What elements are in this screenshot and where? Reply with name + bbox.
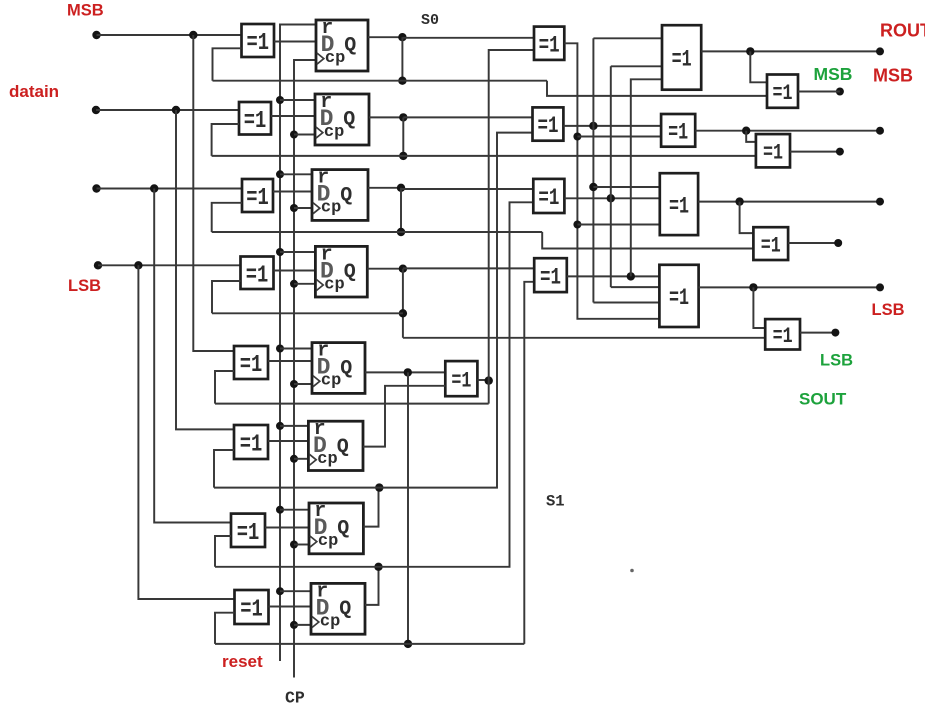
wire U14 tap down to P-gate U18: [750, 51, 767, 82]
wire CP stub to FF6 cp: [294, 458, 308, 460]
wire FF4 Q down past feedback bus: [402, 269, 404, 338]
wire U9 tap to U16: [577, 224, 659, 226]
svg-text:Q: Q: [344, 261, 356, 284]
wire U2 feedback input: [212, 124, 239, 156]
xor gate U18 (=1): [767, 75, 798, 108]
node FF3 Q junction: [397, 184, 405, 192]
wire row4 lower leg to P4: [403, 337, 765, 339]
wire U10 output to U15: [563, 125, 661, 127]
xor gate U7 (=1): [231, 514, 265, 547]
wire U13 lower input from FF6 Q: [363, 386, 445, 447]
wire CP stub to FF2 cp: [294, 134, 315, 136]
junction MSB bus: [189, 31, 197, 39]
xor gate U9 (=1): [534, 27, 564, 60]
wire FF4 Q output: [367, 268, 403, 270]
wire bottom bus (row8 feedback): [215, 643, 524, 645]
wire reset stub to FF4 r: [280, 251, 315, 253]
wire U11 output vertical: [610, 66, 612, 287]
svg-text:Q: Q: [343, 109, 355, 132]
node input bit2: [92, 184, 100, 192]
junction CP to FF2: [290, 131, 298, 139]
junction CP to FF7: [290, 541, 298, 549]
svg-text:=1: =1: [246, 185, 269, 212]
wire U20 output: [788, 242, 838, 244]
wire U15 output: [695, 130, 880, 132]
wire MSB vertical bus down to row5: [193, 35, 234, 351]
wire U11 output to U16: [564, 197, 659, 199]
node output bit3: [876, 198, 884, 206]
wire U1 feedback input: [213, 48, 242, 80]
svg-text:S0: S0: [421, 12, 439, 29]
node SOUT LSB output: [831, 329, 839, 337]
node LSB input: [94, 261, 102, 269]
svg-text:=1: =1: [538, 185, 559, 211]
svg-text:cp: cp: [324, 123, 344, 142]
svg-text:CP: CP: [285, 689, 305, 708]
svg-text:=1: =1: [773, 81, 793, 106]
node FF5 Q junction: [404, 368, 412, 376]
wire row7 feedback bus up to XOR U11: [215, 202, 533, 567]
svg-text:=1: =1: [237, 520, 260, 547]
wire bit2 vertical bus down to row7: [154, 189, 231, 523]
junction U14 output tap: [746, 47, 754, 55]
wire reset stub to FF3 r: [280, 173, 312, 175]
junction U10 output: [589, 122, 597, 130]
node FF4 Q junction: [399, 265, 407, 273]
svg-text:=1: =1: [451, 368, 471, 393]
xor gate U20 (=1): [753, 227, 788, 260]
svg-text:cp: cp: [318, 532, 338, 551]
wire row2 Q bus to XOR U10: [403, 116, 532, 118]
wire U4 output to FF4 D: [274, 270, 316, 272]
junction U9 out to U16: [573, 221, 581, 229]
xor gate U14 (=1, tall): [662, 25, 701, 90]
svg-text:=1: =1: [761, 233, 781, 258]
wire U6 feedback input: [214, 450, 234, 488]
svg-text:=1: =1: [540, 264, 561, 290]
junction U16 output tap: [735, 197, 743, 205]
junction reset to FF7: [276, 506, 284, 514]
junction row6 feedback bus: [375, 483, 383, 491]
node datain input: [92, 106, 100, 114]
junction datain bus: [172, 106, 180, 114]
junction reset to FF2: [276, 96, 284, 104]
svg-text:Q: Q: [340, 184, 352, 207]
flip-flop FF2 (D with r, cp): [315, 91, 369, 145]
svg-text:cp: cp: [324, 275, 344, 294]
wire U11 tap to U17: [611, 286, 662, 288]
node MSB output: [836, 88, 844, 96]
wire reset stub to FF5 r: [280, 348, 312, 350]
svg-text:ROUT: ROUT: [880, 21, 925, 41]
wire input bit2 to XOR U3: [97, 188, 243, 190]
svg-text:=1: =1: [246, 262, 269, 289]
wire U3 output to FF3 D: [273, 191, 312, 193]
svg-text:MSB: MSB: [67, 1, 104, 19]
junction CP to FF8: [290, 621, 298, 629]
svg-text:reset: reset: [222, 652, 263, 671]
svg-text:cp: cp: [321, 199, 341, 218]
wire U6 output to FF6 D: [268, 440, 308, 442]
junction U11 output: [607, 194, 615, 202]
wire CP stub to FF3 cp: [294, 207, 312, 209]
wire reset stub to FF6 r: [280, 425, 308, 427]
node FF1 Q junction: [398, 33, 406, 41]
node output bit2: [876, 127, 884, 135]
flip-flop FF8 (D with r, cp): [311, 580, 365, 634]
flip-flop FF4 (D with r, cp): [315, 243, 367, 297]
wire U16 output: [698, 201, 880, 203]
junction CP to FF6: [290, 455, 298, 463]
junction reset to FF5: [276, 345, 284, 353]
wire U5 feedback input: [215, 371, 234, 404]
wire FF1 Q output: [368, 36, 402, 38]
flip-flop FF1 (D with r, cp): [316, 17, 368, 71]
svg-text:Q: Q: [340, 357, 352, 380]
wire U12 output vertical to U14: [631, 79, 662, 276]
wire FF7 Q up to row6 feedback bus: [363, 488, 378, 527]
xor gate U15 (=1): [661, 114, 695, 147]
flip-flop FF6 (D with r, cp): [308, 418, 363, 470]
xor gate U12 (=1): [534, 258, 567, 292]
svg-text:=1: =1: [539, 32, 560, 58]
wire FF5 Q output to XOR U13: [365, 371, 445, 373]
junction row7 feedback bus: [374, 563, 382, 571]
svg-text:LSB: LSB: [68, 277, 101, 295]
svg-text:cp: cp: [321, 372, 341, 391]
node serial output bit2: [836, 148, 844, 156]
wire reset vertical line: [280, 25, 316, 662]
svg-text:=1: =1: [669, 193, 689, 219]
junction bottom bus: [404, 640, 412, 648]
wire row2 feedback bus to P2: [212, 155, 756, 157]
wire reset stub to FF8 r: [280, 590, 311, 592]
junction reset to FF4: [276, 248, 284, 256]
xor gate U19 (=1): [756, 134, 790, 167]
wire MSB input to XOR U1: [97, 34, 242, 36]
node MSB input: [92, 31, 100, 39]
wire row4 Q bus to XOR U12: [403, 267, 534, 269]
junction CP to FF5: [290, 380, 298, 388]
svg-text:=1: =1: [773, 324, 793, 349]
svg-text:=1: =1: [668, 120, 688, 146]
junction U15 output tap: [742, 127, 750, 135]
xor gate U6 (=1): [234, 425, 268, 459]
svg-text:=1: =1: [244, 108, 267, 135]
junction U9 out to U15: [573, 133, 581, 141]
svg-text:Q: Q: [339, 598, 351, 621]
wire U3 feedback input: [212, 203, 242, 232]
wire FF2 Q output: [369, 116, 403, 118]
svg-text:datain: datain: [9, 82, 59, 101]
node FF2 Q junction: [399, 113, 407, 121]
xor gate U16 (=1, tall): [660, 173, 698, 235]
wire U14 output to ROUT: [701, 50, 880, 52]
wire CP stub to FF4 cp: [294, 283, 315, 285]
wire U8 output to FF8 D: [269, 606, 312, 608]
wire U10 output vertical: [592, 38, 594, 302]
svg-text:=1: =1: [537, 113, 558, 139]
wire reset stub to FF2 r: [280, 99, 315, 101]
junction U17 output tap: [749, 283, 757, 291]
wire U11 tap to U14: [611, 65, 662, 67]
svg-text:Q: Q: [337, 518, 349, 541]
flip-flop FF5 (D with r, cp): [312, 340, 365, 394]
svg-text:Q: Q: [337, 436, 349, 459]
wire U13 output: [477, 379, 488, 381]
wire U17 output to LSB: [699, 286, 880, 288]
junction bit2 bus: [150, 184, 158, 192]
wire U15 tap down to U19: [746, 131, 756, 142]
wire FF3 Q down to feedback bus: [400, 188, 402, 232]
flip-flop FF3 (D with r, cp): [312, 167, 368, 221]
node serial output bit3: [834, 239, 842, 247]
wire LSB to XOR U4: [98, 264, 241, 266]
wire row1 feedback bus: [213, 80, 548, 82]
wire bottom bus up to XOR U12 (S1 net): [524, 282, 534, 644]
svg-text:Q: Q: [344, 35, 356, 58]
svg-text:MSB: MSB: [873, 65, 913, 85]
wire LSB vertical bus down to row8: [138, 265, 234, 599]
wire U8 feedback input: [215, 613, 235, 644]
svg-text:=1: =1: [247, 30, 270, 57]
wire reset stub to FF7 r: [280, 509, 309, 511]
wire U1 output to FF1 D: [274, 41, 316, 43]
svg-text:MSB: MSB: [814, 64, 853, 84]
xor gate U13 (=1, Q5^Q6): [445, 361, 477, 396]
wire datain to XOR U2: [96, 109, 239, 111]
svg-text:S1: S1: [546, 493, 565, 511]
wire row6 feedback bus up to XOR U10: [214, 133, 533, 488]
wire CP stub to FF8 cp: [294, 624, 311, 626]
wire U21 output: [800, 332, 835, 334]
wire U19 output: [790, 151, 840, 153]
wire U16 tap down to U20: [740, 202, 754, 234]
wire S0 bus to XOR U9: [402, 37, 534, 39]
svg-text:cp: cp: [325, 49, 345, 68]
wire U17 tap down to U21: [753, 287, 765, 328]
wire row4 feedback bus: [212, 312, 403, 314]
wire FF3 Q output: [368, 187, 401, 189]
svg-text:SOUT: SOUT: [799, 390, 847, 409]
wire U12 output to U17: [567, 275, 662, 277]
wire U10 tap to U14: [593, 37, 662, 39]
wire U10 tap to U16: [593, 186, 659, 188]
xor gate U2 (=1): [239, 102, 271, 135]
xor gate U1 (=1): [242, 24, 275, 57]
junction U10 out to U16: [589, 183, 597, 191]
junction row4 feedback bus: [399, 309, 407, 317]
wire U9 output down (to B-gates): [564, 43, 662, 319]
xor gate U11 (=1): [533, 179, 564, 213]
wire row3 Q bus to XOR U11: [401, 188, 533, 190]
wire row1 feedback jog to P1: [547, 81, 767, 96]
junction CP to FF3: [290, 204, 298, 212]
junction reset to FF3: [276, 170, 284, 178]
xor gate U17 (=1, tall): [659, 265, 698, 327]
svg-text:LSB: LSB: [820, 352, 853, 370]
junction reset to FF8: [276, 587, 284, 595]
xor gate U3 (=1): [242, 179, 273, 212]
svg-text:=1: =1: [669, 285, 689, 311]
svg-text:=1: =1: [240, 432, 263, 459]
wire U18 output: [798, 91, 840, 93]
wire row3 feedback jog to P3: [542, 232, 753, 249]
svg-text:=1: =1: [240, 597, 263, 624]
xor gate U21 (=1): [765, 319, 800, 349]
junction row2 feedback bus: [399, 152, 407, 160]
junction LSB bus: [134, 261, 142, 269]
svg-text:LSB: LSB: [872, 301, 905, 319]
svg-text:=1: =1: [763, 141, 783, 166]
flip-flop FF7 (D with r, cp): [309, 500, 363, 554]
node stray mark: [630, 569, 634, 573]
wire U4 feedback input: [212, 281, 241, 313]
junction row1 feedback bus: [398, 77, 406, 85]
wire U5 output to FF5 D: [268, 360, 312, 362]
svg-text:cp: cp: [317, 450, 337, 469]
xor gate U4 (=1): [241, 257, 274, 290]
wire CP vertical line: [294, 60, 316, 678]
wire FF5 Q down to bottom bus: [407, 372, 409, 644]
wire FF1 Q down to feedback bus: [401, 37, 403, 80]
junction reset to FF6: [276, 422, 284, 430]
wire row3 feedback bus: [212, 231, 543, 233]
svg-text:cp: cp: [320, 612, 340, 631]
node U13 output junction: [485, 376, 493, 384]
node ROUT output: [876, 47, 884, 55]
wire U7 output to FF7 D: [265, 527, 309, 529]
xor gate U5 (=1): [234, 346, 268, 379]
wire U13 output vertical to XOR U9: [489, 50, 534, 404]
wire datain vertical bus down to row6: [176, 110, 234, 429]
xor gate U10 (=1): [533, 107, 564, 140]
junction row3 feedback bus: [397, 228, 405, 236]
wire CP stub to FF7 cp: [294, 544, 309, 546]
junction U12 output: [627, 272, 635, 280]
svg-text:=1: =1: [240, 352, 263, 379]
wire U9 tap to U15: [577, 136, 661, 138]
svg-text:=1: =1: [672, 47, 692, 73]
wire FF8 Q up to row7 feedback bus: [365, 567, 379, 605]
wire FF2 Q down to feedback bus: [402, 117, 404, 155]
xor gate U8 (=1): [235, 590, 269, 624]
junction CP to FF4: [290, 280, 298, 288]
wire row5 feedback bus: [215, 403, 489, 405]
wire CP stub to FF5 cp: [294, 383, 312, 385]
wire U2 output to FF2 D: [271, 115, 315, 117]
wire U10 tap to U17: [593, 302, 661, 304]
node LSB output: [876, 283, 884, 291]
wire U7 feedback input: [215, 536, 231, 567]
